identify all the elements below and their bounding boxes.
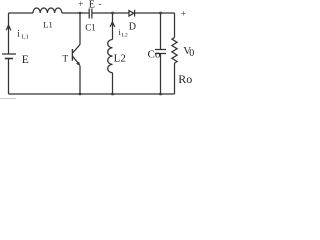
capacitor C1 left plate [88,9,90,19]
label iL2 [119,28,128,39]
wire: top rail from source to L1 [9,12,34,14]
svg-text:C1: C1 [85,23,96,33]
svg-text:i: i [17,29,20,39]
wire: right vertical to resistor Ro [174,13,176,38]
wire: top rail from L1 to node A [62,12,89,14]
diode D triangle [129,11,134,16]
wire: left vertical, source top lead [8,13,10,54]
diode D cathode bar [134,10,136,17]
svg-text:+: + [181,9,186,19]
wire: capacitor Co top lead [160,13,162,50]
battery E long plate [2,53,16,55]
transistor T collector diagonal [73,45,80,53]
label V0 [183,45,194,59]
wire: bottom rail [9,93,175,95]
wire: right vertical below Ro [174,63,176,94]
svg-text:L2: L2 [122,33,128,39]
node: top of Co branch [159,12,162,15]
svg-text:E: E [89,0,95,11]
transistor T emitter diagonal [73,57,80,65]
svg-text:+: + [78,0,83,9]
capacitor Co bottom plate [155,53,166,55]
capacitor Co top plate [155,49,166,51]
node: top of transistor branch [79,12,82,15]
wire: left vertical, source bottom lead [8,59,10,95]
resistor Ro zigzag [172,38,177,64]
label iL1 [17,29,29,40]
svg-text:Ro: Ro [178,72,192,86]
svg-text:L1: L1 [22,33,29,40]
svg-text:D: D [129,22,136,33]
node: top of L2 branch [111,12,114,15]
transistor T collector wire [79,13,81,45]
scan artifact line bottom left [0,98,16,100]
svg-text:E: E [22,54,29,66]
svg-text:L1: L1 [43,20,52,30]
battery E short plate [5,58,13,60]
inductor L1 [33,8,62,13]
transistor T base bar [71,49,73,61]
svg-text:-: - [99,0,102,9]
node: bottom of Co branch [159,93,162,96]
node: bottom of L2 branch [111,93,114,96]
capacitor C1 right plate [91,9,93,19]
node: bottom of transistor branch [79,93,82,96]
wire: inductor L2 bottom lead [112,73,114,94]
svg-text:T: T [62,54,68,64]
wire: top rail from C1 to diode anode [92,12,129,14]
transistor T emitter arrowhead [76,62,80,66]
inductor L2 [108,40,113,73]
svg-text:Co: Co [148,49,161,61]
wire: top rail from diode to output corner [135,12,175,14]
wire: capacitor Co bottom lead [160,54,162,95]
current arrow iL1 [6,25,11,30]
current arrow iL2 [110,22,115,27]
transistor T emitter wire [79,66,81,95]
svg-text:0: 0 [189,48,194,59]
wire: inductor L2 top lead [112,13,114,40]
svg-text:L2: L2 [114,53,126,65]
